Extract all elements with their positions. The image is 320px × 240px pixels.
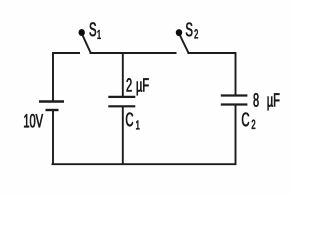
wire: battery negative terminal to bottom rail xyxy=(52,110,54,164)
label S2 xyxy=(186,23,198,39)
label S1 xyxy=(90,22,101,39)
battery V1 (10V cell, long plus plate / short minus plate) xyxy=(39,102,64,111)
value label 8 uF xyxy=(254,93,280,110)
capacitor C2 (parallel plates) xyxy=(221,96,248,105)
label C1 xyxy=(126,113,139,130)
wire: top rail middle segment (S1 to S2 through node at C1) xyxy=(90,52,177,54)
value label 10V xyxy=(24,114,43,128)
switch S2 (open blade with contact dot) xyxy=(176,29,189,54)
wire: top rail left segment (battery plus to switch S1) xyxy=(53,53,80,102)
wire: bottom rail xyxy=(52,163,237,165)
capacitor C1 (parallel plates) xyxy=(108,97,135,106)
wire: C1 bottom plate to bottom rail xyxy=(122,106,124,164)
label C2 xyxy=(242,113,255,129)
wire: branch from top rail down to C1 top plate xyxy=(122,52,124,97)
value label 2 uF xyxy=(127,78,149,95)
wire: top rail right segment (S2 to corner above C2) xyxy=(188,53,236,96)
switch S1 (open blade with contact dot) xyxy=(79,29,92,54)
wire: C2 bottom plate to bottom rail xyxy=(235,105,237,165)
